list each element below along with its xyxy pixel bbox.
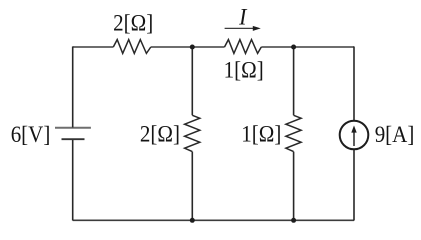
svg-text:6[V]: 6[V] — [11, 121, 51, 147]
svg-text:1[Ω]: 1[Ω] — [241, 120, 281, 146]
svg-text:2[Ω]: 2[Ω] — [113, 10, 153, 36]
svg-text:9[A]: 9[A] — [375, 121, 415, 147]
svg-text:2[Ω]: 2[Ω] — [140, 120, 180, 146]
svg-text:I: I — [238, 4, 248, 30]
svg-text:1[Ω]: 1[Ω] — [224, 56, 264, 82]
